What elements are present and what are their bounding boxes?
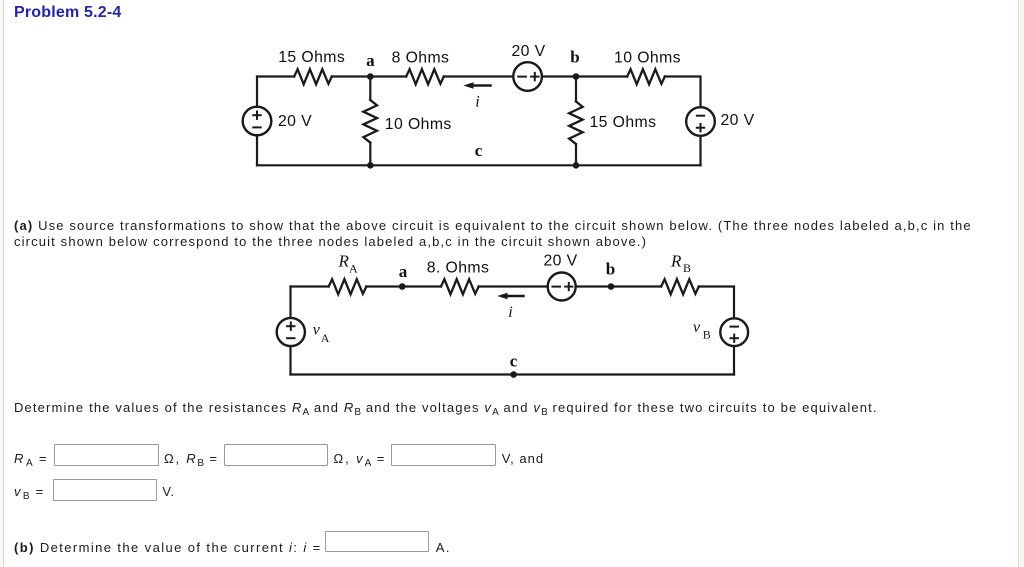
wire: RB to top-right corner and down to source vB	[699, 287, 734, 319]
wire: node b down to 15-Ohm vertical resistor	[575, 77, 577, 102]
wire: 15-Ohm resistor to node a	[332, 75, 371, 77]
voltage source 20 V (left rail, + top - bottom)	[243, 107, 272, 136]
resistor RA (horizontal)	[329, 279, 367, 294]
svg-text:i: i	[475, 94, 479, 111]
paragraph (a)	[14, 218, 972, 251]
svg-text:8 Ohms: 8 Ohms	[392, 50, 450, 67]
resistor 15 Ohms (vertical at node b)	[569, 102, 583, 145]
svg-text:b: b	[606, 259, 615, 278]
voltage source 20 V (top middle, - +)	[513, 62, 542, 91]
junction dot at node c (circuit 2)	[510, 371, 517, 378]
answer row 1: RA, RB, vA inputs	[14, 451, 49, 466]
input RB	[224, 444, 329, 466]
svg-text:B: B	[683, 261, 691, 275]
node a (circuit 2 dot)	[399, 283, 406, 290]
current arrow i (pointing left)	[463, 82, 490, 89]
voltage source vB (right rail, - top + bottom)	[720, 318, 748, 346]
junction dot at node b column on bottom wire	[573, 162, 580, 169]
input vB	[53, 479, 158, 500]
current arrow i (circuit 2, pointing left)	[497, 293, 523, 300]
voltage source 20 V (circuit 2, - +)	[548, 273, 576, 301]
title	[14, 4, 122, 22]
svg-text:a: a	[366, 51, 375, 70]
svg-text:10 Ohms: 10 Ohms	[385, 116, 452, 133]
svg-text:A: A	[321, 331, 330, 345]
svg-text:v: v	[313, 321, 321, 338]
wire: node a down to 10-Ohm vertical resistor	[369, 77, 371, 101]
svg-text:20 V: 20 V	[543, 253, 577, 270]
svg-text:R: R	[670, 252, 682, 271]
wire: 10-Ohm resistor to top-right corner and down to right source	[665, 77, 701, 108]
wire: node b to 10-Ohm resistor (top right)	[576, 75, 627, 77]
svg-text:15 Ohms: 15 Ohms	[590, 114, 657, 131]
svg-text:b: b	[570, 48, 579, 67]
input i	[325, 531, 429, 552]
wire: node a to 8.-Ohm resistor	[402, 285, 441, 287]
svg-text:B: B	[703, 327, 711, 341]
svg-text:A: A	[349, 262, 358, 276]
svg-text:c: c	[475, 141, 483, 160]
input vA	[391, 444, 497, 466]
wire: left rail bottom (source to corner)	[256, 135, 258, 165]
svg-text:c: c	[510, 352, 518, 371]
part (b) row with current input	[14, 540, 322, 555]
svg-text:R: R	[338, 252, 350, 271]
determine sentence	[14, 400, 878, 415]
junction dot at node a column on bottom wire	[367, 162, 374, 169]
wire: left rail top (corner down to source vA)	[289, 287, 291, 318]
svg-text:20 V: 20 V	[511, 43, 545, 60]
svg-text:20 V: 20 V	[278, 113, 312, 130]
svg-text:v: v	[693, 319, 701, 336]
wire: node a to 8-Ohm resistor	[370, 75, 406, 77]
svg-text:15 Ohms: 15 Ohms	[278, 49, 345, 66]
node b (circuit 2 dot)	[608, 283, 615, 290]
right page margin strip	[1018, 0, 1024, 567]
wire: bottom rail of circuit 2	[291, 373, 735, 375]
svg-text:20 V: 20 V	[721, 112, 755, 129]
voltage source 20 V (right rail, - top + bottom)	[686, 107, 715, 136]
left page margin strip	[0, 0, 4, 567]
svg-text:i: i	[508, 304, 512, 321]
resistor 15 Ohms (top left, horizontal)	[294, 69, 332, 84]
node b (junction dot, top)	[573, 73, 580, 80]
wire: source vA to bottom-left corner	[289, 346, 291, 374]
wire: 15-Ohm vertical resistor to bottom wire	[575, 144, 577, 165]
wire: RA to node a	[366, 285, 402, 287]
wire: 20V source to node b	[576, 285, 611, 287]
wire: left rail top (corner to source)	[256, 77, 258, 107]
resistor 8. Ohms (horizontal)	[441, 279, 479, 294]
resistor RB (horizontal)	[661, 279, 699, 294]
resistor 10 Ohms (vertical at node a)	[363, 100, 377, 143]
wire: bottom rail of circuit 1	[257, 164, 701, 166]
svg-text:8. Ohms: 8. Ohms	[427, 259, 490, 276]
resistor 8 Ohms (top, horizontal)	[406, 69, 444, 84]
answer row 2: vB input	[14, 484, 46, 499]
wire: top-left segment from left rail corner to 15-Ohm resistor	[257, 75, 294, 77]
wire: 10-Ohm vertical resistor to bottom wire	[369, 143, 371, 166]
wire: 20V source to node b	[542, 75, 576, 77]
wire: 8.-Ohm resistor to 20V source	[479, 285, 548, 287]
wire: 8-Ohm resistor to 20V source (left terminal)	[444, 75, 514, 77]
node a (junction dot, top)	[367, 73, 374, 80]
resistor 10 Ohms (top right, horizontal)	[627, 69, 665, 84]
svg-text:a: a	[399, 262, 408, 281]
svg-text:10 Ohms: 10 Ohms	[614, 50, 681, 67]
voltage source vA (left rail, + top - bottom)	[277, 318, 305, 346]
input RA	[54, 444, 158, 466]
wire: source vB to bottom-right corner	[733, 346, 735, 374]
wire: right source to bottom-right corner	[699, 136, 701, 166]
wire: top-left segment to resistor RA	[291, 285, 329, 287]
wire: node b to resistor RB	[611, 285, 661, 287]
